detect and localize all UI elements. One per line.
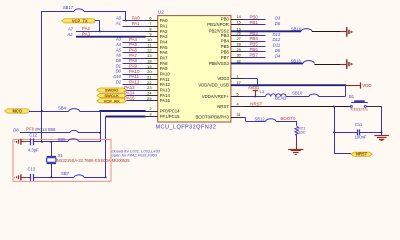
- wire crystal bottom row: [33, 177, 74, 179]
- net flag NRST: [351, 152, 372, 156]
- wire SB17 row right segment: [84, 11, 126, 13]
- wire PA2 row: [76, 31, 146, 33]
- svg-text:PA12: PA12: [160, 82, 171, 87]
- svg-text:SB10: SB10: [292, 91, 303, 96]
- U2 right pin 4 NRST stub: [231, 106, 244, 108]
- ground sideways left bottom: [21, 177, 25, 179]
- svg-text:SB12: SB12: [254, 116, 265, 121]
- solder bridge SB18 arc: [303, 61, 314, 64]
- wire PF1 drop to crystal bottom: [105, 117, 107, 178]
- svg-text:PA0: PA0: [160, 18, 168, 23]
- svg-text:PA6: PA6: [160, 50, 168, 55]
- svg-text:PA3: PA3: [160, 34, 168, 39]
- junction left rail crystal top: [41, 141, 43, 143]
- junction VDD3 on VDD line: [256, 84, 258, 86]
- svg-text:PA9: PA9: [129, 64, 138, 69]
- U2 right pin 26 PB3 stub: [231, 35, 244, 37]
- svg-text:8: 8: [149, 26, 151, 31]
- wire VDD thick line: [231, 84, 346, 86]
- svg-text:PA11: PA11: [129, 74, 140, 79]
- svg-text:PA3: PA3: [82, 32, 91, 37]
- svg-text:A3: A3: [115, 37, 122, 42]
- svg-text:PB0: PB0: [250, 14, 259, 19]
- svg-text:PA10: PA10: [129, 69, 140, 74]
- wire to NRST flag: [334, 153, 351, 155]
- svg-text:PB3: PB3: [221, 33, 230, 38]
- svg-text:D2: D2: [116, 79, 122, 84]
- svg-text:SWDIO: SWDIO: [105, 88, 119, 93]
- U2 left pin 19 PA9 stub: [146, 68, 158, 70]
- svg-text:PB4: PB4: [221, 38, 230, 43]
- U2 left pin 12 PA6 stub: [146, 52, 158, 54]
- wire VDDA to VDD corner: [319, 96, 346, 98]
- svg-text:PA13: PA13: [160, 88, 171, 93]
- U2 left pin 24 PA14 stub: [146, 95, 158, 97]
- svg-text:C11: C11: [355, 122, 363, 127]
- svg-text:13: 13: [147, 53, 151, 58]
- svg-text:27: 27: [237, 36, 241, 41]
- svg-text:PA8: PA8: [129, 58, 138, 63]
- svg-text:3: 3: [149, 112, 151, 117]
- ground VSS2 sideways right: [346, 27, 348, 37]
- svg-text:D9: D9: [116, 58, 122, 63]
- svg-text:PA0: PA0: [132, 16, 141, 21]
- U2 right pin 27 PB4 stub: [231, 41, 244, 43]
- svg-text:PF0: PF0: [26, 127, 35, 132]
- svg-text:31: 31: [237, 112, 241, 117]
- svg-text:B1: B1: [349, 94, 355, 99]
- power port AVDD: [255, 90, 257, 96]
- junction AVDD on VDDA row: [254, 95, 256, 97]
- svg-text:7: 7: [149, 21, 151, 26]
- svg-text:2: 2: [149, 106, 151, 111]
- svg-text:5: 5: [237, 91, 239, 96]
- wire PA0 row: [123, 20, 146, 22]
- svg-text:NRST: NRST: [356, 152, 368, 157]
- solder bridge SB17 arc: [74, 9, 84, 12]
- U2 right pin 30 PB7 stub: [231, 57, 244, 59]
- svg-text:A2: A2: [66, 32, 73, 37]
- svg-text:PA7: PA7: [160, 56, 168, 61]
- svg-text:D5: D5: [275, 48, 281, 53]
- wire PA4 row: [123, 42, 146, 44]
- svg-text:D13: D13: [273, 32, 281, 37]
- U2 right pin 32 PB8/VSS3 stub: [231, 63, 244, 65]
- junction VCP_TX on PA2 row: [99, 30, 101, 32]
- wire PA8 row: [123, 63, 146, 65]
- svg-text:PB1: PB1: [250, 20, 259, 25]
- solder bridge SB16 arc: [301, 29, 312, 32]
- svg-text:PA9: PA9: [160, 66, 168, 71]
- junction crystal column top: [50, 141, 52, 143]
- svg-text:VDDA/VREF+: VDDA/VREF+: [202, 94, 230, 99]
- power port VDD: [345, 85, 360, 87]
- svg-text:1: 1: [237, 74, 239, 79]
- wire PF1 row thick: [106, 116, 146, 118]
- wire VDDA row: [244, 96, 266, 98]
- svg-text:PA5: PA5: [160, 45, 168, 50]
- wire VSS2 thick: [231, 30, 301, 32]
- svg-text:A1: A1: [115, 21, 121, 26]
- U2 left pin 20 PA10 stub: [146, 74, 158, 76]
- capacitor C12: [30, 138, 32, 145]
- junction PA0 row: [125, 20, 127, 22]
- svg-text:PA6: PA6: [129, 48, 138, 53]
- wire NRST row: [244, 106, 351, 108]
- svg-text:28: 28: [237, 42, 241, 47]
- svg-text:SB6: SB6: [48, 127, 57, 132]
- wire PA13 row: [126, 90, 145, 92]
- svg-text:D4: D4: [275, 54, 281, 59]
- ground VSS3 sideways right: [346, 59, 348, 69]
- U2 right pin 16 PB2/VSS2 stub: [231, 31, 244, 33]
- svg-text:U2: U2: [158, 10, 164, 16]
- net flag SWDIO: [97, 88, 126, 92]
- svg-text:PB6: PB6: [250, 47, 259, 52]
- svg-text:A0: A0: [115, 15, 122, 20]
- wire PF0 drop to crystal top: [100, 111, 102, 142]
- solder bridge SB4 arc: [69, 109, 80, 112]
- net flag VCP_RX: [97, 99, 126, 103]
- svg-text:22: 22: [147, 80, 151, 85]
- svg-text:PA1: PA1: [132, 21, 141, 26]
- svg-text:25: 25: [147, 96, 151, 101]
- svg-text:PA13: PA13: [124, 85, 135, 90]
- push button B1: [350, 105, 352, 107]
- inductor L1 ferrite bead coil: [266, 94, 271, 97]
- svg-text:SB7: SB7: [61, 171, 70, 176]
- svg-text:PA12: PA12: [129, 80, 140, 85]
- wire SB17 row left segment: [42, 11, 74, 13]
- wire C11 row: [334, 132, 357, 134]
- svg-text:29: 29: [237, 47, 241, 52]
- wire drop VCP_TX to PA2 row: [99, 21, 101, 32]
- wire crystal top row: [33, 141, 68, 143]
- junction C11 left: [333, 131, 335, 133]
- wire PA12 row: [123, 84, 146, 86]
- svg-text:PA14: PA14: [160, 93, 171, 98]
- U2 left pin 13 PA7 stub: [146, 58, 158, 60]
- svg-text:4.3pF: 4.3pF: [28, 147, 39, 152]
- U2 right pin 31 BOOT0/PB8/PH3 stub: [231, 117, 244, 119]
- svg-text:A4: A4: [115, 42, 122, 47]
- wire PA9 row: [123, 68, 146, 70]
- svg-text:open for F042,F031,F303: open for F042,F031,F303: [112, 152, 158, 157]
- svg-text:D3: D3: [275, 15, 281, 20]
- wire left rail vertical: [41, 11, 43, 142]
- svg-text:PB7: PB7: [250, 53, 259, 58]
- U2 left pin 18 PA8 stub: [146, 63, 158, 65]
- wire drop to PA0 row: [125, 11, 127, 21]
- highlight box around crystal circuit: [13, 139, 111, 181]
- svg-text:PA14: PA14: [124, 90, 135, 95]
- wire PA14 row: [126, 95, 145, 97]
- solder bridge SB6 arc: [70, 130, 78, 132]
- svg-text:SWCLK: SWCLK: [104, 93, 119, 98]
- svg-text:PB1/NPOR: PB1/NPOR: [207, 22, 229, 27]
- svg-text:VDD/VDD_USB: VDD/VDD_USB: [198, 83, 229, 88]
- junction VDD node: [344, 84, 346, 86]
- svg-text:11: 11: [147, 42, 151, 47]
- svg-text:PB8/VSS3: PB8/VSS3: [209, 61, 230, 66]
- wire BOOT0 down to resistor: [296, 121, 298, 126]
- svg-text:AVDD: AVDD: [248, 85, 259, 90]
- U2 right pin 28 PB5 stub: [231, 46, 244, 48]
- junction NRST with flag drop: [333, 105, 335, 107]
- svg-text:SB5: SB5: [58, 137, 67, 142]
- svg-text:PA7: PA7: [129, 53, 138, 58]
- U2 left pin 3 PF1/PC15: [146, 116, 158, 118]
- U2 left pin 2 PF0/PC14: [146, 111, 158, 113]
- svg-text:23: 23: [147, 85, 151, 90]
- svg-text:PB6: PB6: [221, 49, 230, 54]
- U2 right pin 14 PB0 stub: [231, 19, 244, 21]
- svg-text:SB17: SB17: [63, 5, 74, 10]
- wire PB3 row right: [244, 35, 266, 37]
- net flag MCO: [5, 109, 31, 113]
- U2 right pin 5 VDDA/VREF+ stub: [231, 96, 244, 98]
- U2 left pin 8 PA2 stub: [146, 31, 158, 33]
- U2 right pin 29 PB6 stub: [231, 51, 244, 53]
- svg-text:PA5: PA5: [129, 42, 138, 47]
- svg-text:MCU_LQFP32QFN32: MCU_LQFP32QFN32: [156, 125, 217, 131]
- solder bridge SB5 arc: [68, 139, 79, 142]
- svg-text:BOOT0/PB8/PH3: BOOT0/PB8/PH3: [195, 115, 229, 120]
- svg-text:PF1/PC15: PF1/PC15: [160, 114, 180, 119]
- wire from button to right column: [366, 106, 381, 108]
- capacitor C13: [30, 174, 32, 181]
- U2 left pin 25 PA15 stub: [146, 100, 158, 102]
- wire D8 row right segment: [78, 132, 100, 134]
- wire PA10 row: [123, 74, 146, 76]
- svg-text:PA10: PA10: [160, 72, 171, 77]
- svg-text:VCP_RX: VCP_RX: [104, 98, 120, 103]
- svg-text:6: 6: [149, 16, 151, 21]
- net flag SWCLK: [97, 93, 126, 97]
- U2 right pin 15 PB1/NPOR stub: [231, 24, 244, 26]
- svg-text:PA4: PA4: [129, 37, 138, 42]
- U2 left pin 23 PA13 stub: [146, 90, 158, 92]
- wire VDD3 pin1 bend: [244, 78, 258, 80]
- svg-text:21: 21: [147, 74, 151, 79]
- capacitor C11: [357, 129, 359, 135]
- svg-text:D12: D12: [273, 37, 281, 42]
- wire PA15 row: [126, 100, 145, 102]
- U2 left pin 6 PA0 stub: [146, 20, 158, 22]
- svg-text:PB0: PB0: [221, 17, 230, 22]
- wire PA1 row: [123, 26, 146, 28]
- wire crystal bottom row right segment: [84, 177, 106, 179]
- svg-text:D11: D11: [273, 43, 280, 48]
- svg-text:K3S321G: K3S321G: [351, 106, 368, 111]
- svg-text:BEAD: BEAD: [275, 96, 286, 101]
- wire PB4 row right: [244, 41, 266, 43]
- U2 left pin 22 PA12 stub: [146, 84, 158, 86]
- op-amp U2 MCU body: [158, 16, 231, 122]
- svg-text:/PC14: /PC14: [35, 127, 47, 132]
- wire right column down: [381, 106, 383, 135]
- svg-text:MCO: MCO: [12, 109, 22, 114]
- wire PB7 row right: [244, 57, 266, 59]
- svg-text:VDD: VDD: [362, 83, 371, 88]
- crystal X1 column bottom: [51, 164, 53, 169]
- svg-text:NRST: NRST: [250, 101, 262, 106]
- crystal X1 symbol: [47, 156, 56, 158]
- svg-text:PA15: PA15: [160, 98, 171, 103]
- svg-text:PA2: PA2: [160, 29, 168, 34]
- svg-text:D10: D10: [113, 74, 121, 79]
- svg-text:PA11: PA11: [160, 77, 170, 82]
- svg-text:NX3215SA-32.768K-EXS00A-MU0052: NX3215SA-32.768K-EXS00A-MU00525: [57, 158, 131, 163]
- wire MCO row left segment: [29, 111, 69, 113]
- svg-text:VCP_TX: VCP_TX: [72, 18, 88, 23]
- svg-text:PA2: PA2: [82, 26, 91, 31]
- ground below R21: [288, 149, 303, 151]
- svg-text:PB5: PB5: [221, 44, 230, 49]
- ground below right column: [374, 135, 389, 137]
- solder bridge SB10 arc: [309, 94, 319, 96]
- svg-text:BOOT0: BOOT0: [281, 116, 296, 121]
- wire PA5 row: [123, 47, 146, 49]
- junction PF0 drop: [99, 110, 101, 112]
- svg-text:PA4: PA4: [160, 40, 168, 45]
- U2 left pin 10 PA4 stub: [146, 42, 158, 44]
- svg-text:C12: C12: [29, 132, 37, 137]
- svg-text:SB16: SB16: [291, 26, 302, 31]
- wire VSS2 to ground: [312, 31, 340, 33]
- svg-text:PA15: PA15: [124, 96, 135, 101]
- junction crystal bottom with PF1 drop: [105, 176, 107, 178]
- svg-text:NRST: NRST: [217, 104, 229, 109]
- svg-text:18: 18: [147, 58, 151, 63]
- wire PA7 row: [123, 58, 146, 60]
- ground sideways left top: [21, 141, 25, 143]
- U2 left pin 7 PA1 stub: [146, 26, 158, 28]
- svg-text:SB18: SB18: [291, 59, 302, 64]
- svg-text:100nF: 100nF: [355, 134, 367, 139]
- svg-text:D1: D1: [116, 63, 121, 68]
- svg-text:19: 19: [147, 64, 151, 69]
- wire PB5 row right: [244, 46, 266, 48]
- svg-text:A6: A6: [115, 53, 122, 58]
- wire VSS3 thick: [231, 62, 303, 64]
- wire PB6 row right: [244, 51, 266, 53]
- svg-text:A5: A5: [115, 47, 122, 52]
- wire PA6 row: [123, 52, 146, 54]
- U2 left pin 21 PA11 stub: [146, 79, 158, 81]
- junction D8 row with PF0 drop: [99, 132, 101, 134]
- svg-text:PA1: PA1: [160, 23, 168, 28]
- wire PF0 row thick: [100, 110, 145, 112]
- svg-text:15: 15: [237, 20, 241, 25]
- junction MCO row with left rail: [41, 110, 43, 112]
- svg-text:12: 12: [147, 48, 151, 53]
- junction crystal column bottom: [50, 176, 52, 178]
- wire NRST left column down: [334, 106, 336, 153]
- svg-text:C13: C13: [28, 166, 36, 171]
- svg-text:L1: L1: [260, 89, 265, 94]
- svg-text:SB4: SB4: [58, 105, 67, 110]
- svg-text:PB4: PB4: [250, 36, 259, 41]
- svg-text:PF0/PC14: PF0/PC14: [160, 108, 180, 113]
- wire PB1 row right: [244, 24, 266, 26]
- resistor R21 zigzag: [295, 126, 298, 135]
- wire from VCP_TX flag: [95, 20, 100, 22]
- svg-text:D8: D8: [13, 127, 19, 132]
- wire D8 row left segment: [20, 132, 70, 134]
- wire PA3 row thick: [76, 36, 146, 38]
- U2 left pin 9 PA3 stub: [146, 36, 158, 38]
- svg-text:A7: A7: [67, 26, 74, 31]
- U2 right pin 1 VDD3 stub: [231, 78, 244, 80]
- solder bridge SB7 arc: [74, 175, 84, 178]
- solder bridge SB12 arc: [266, 119, 276, 122]
- wire crystal top row right segment: [79, 141, 101, 143]
- svg-text:9: 9: [149, 32, 151, 37]
- svg-text:10K: 10K: [298, 130, 305, 135]
- wire after L1: [286, 96, 309, 98]
- wire PA11 row: [123, 79, 146, 81]
- wire BOOT0 to resistor corner: [276, 121, 297, 123]
- U2 left pin 11 PA5 stub: [146, 47, 158, 49]
- svg-text:PA8: PA8: [160, 61, 168, 66]
- wire MCO row right segment: [80, 111, 100, 113]
- junction C11 right: [381, 131, 383, 133]
- wire VSS3 to ground: [314, 64, 340, 66]
- wire PB0 row right: [244, 19, 266, 21]
- wire resistor to ground: [296, 135, 298, 142]
- crystal X1 column top: [51, 142, 53, 151]
- svg-text:VDD3: VDD3: [217, 76, 229, 81]
- svg-text:PB7: PB7: [221, 55, 230, 60]
- svg-text:D0: D0: [116, 69, 122, 74]
- net flag VCP_TX: [62, 19, 95, 23]
- U2 right pin 17 VDD/VDD_USB stub: [231, 85, 244, 87]
- svg-text:D6: D6: [275, 21, 281, 26]
- wire BOOT0 step: [244, 117, 246, 119]
- svg-text:PB5: PB5: [250, 42, 259, 47]
